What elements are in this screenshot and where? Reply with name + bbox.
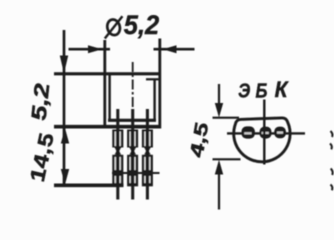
svg-text:5,2: 5,2 [124, 10, 160, 41]
svg-text:Б: Б [256, 79, 268, 102]
svg-text:5,2: 5,2 [27, 83, 54, 121]
svg-text:4,5: 4,5 [185, 122, 213, 158]
svg-text:14,5: 14,5 [25, 133, 59, 182]
svg-text:К: К [275, 78, 290, 103]
svg-text:Э: Э [238, 79, 251, 102]
